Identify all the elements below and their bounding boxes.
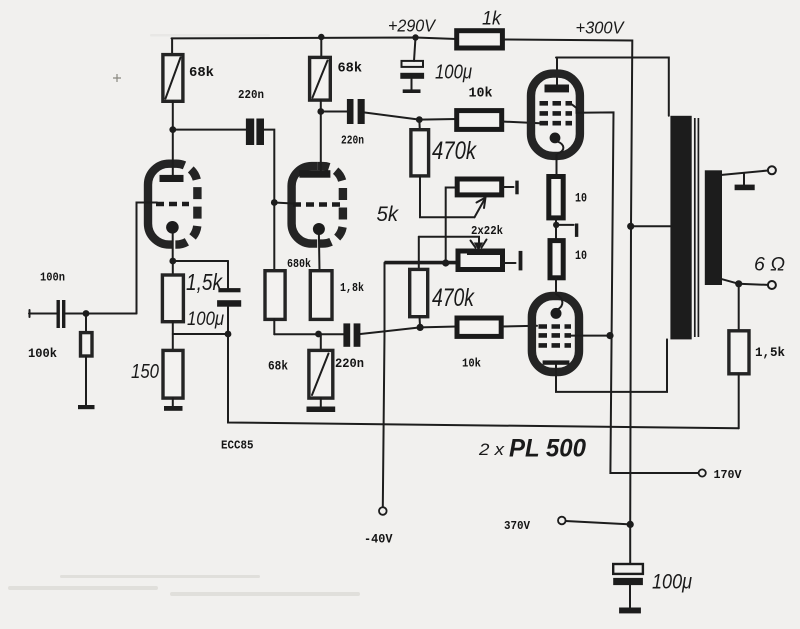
svg-text:170V: 170V xyxy=(714,468,743,482)
svg-text:2x22k: 2x22k xyxy=(471,224,503,238)
svg-text:150: 150 xyxy=(131,360,159,383)
svg-text:68k: 68k xyxy=(189,66,214,81)
svg-text:PL 500: PL 500 xyxy=(509,435,586,463)
svg-text:5k: 5k xyxy=(377,203,400,226)
svg-text:68k: 68k xyxy=(268,360,288,374)
svg-text:+290V: +290V xyxy=(388,16,437,36)
svg-text:68k: 68k xyxy=(338,62,363,77)
svg-text:6 Ω: 6 Ω xyxy=(754,255,785,276)
svg-text:100μ: 100μ xyxy=(187,309,225,330)
svg-text:10: 10 xyxy=(575,192,587,206)
svg-text:1k: 1k xyxy=(482,9,502,30)
svg-text:100n: 100n xyxy=(40,271,65,285)
svg-text:470k: 470k xyxy=(432,137,477,165)
svg-text:100μ: 100μ xyxy=(435,62,472,84)
svg-text:220n: 220n xyxy=(341,134,364,148)
svg-text:680k: 680k xyxy=(287,258,311,271)
svg-text:10k: 10k xyxy=(469,87,493,102)
svg-text:220n: 220n xyxy=(335,357,364,371)
svg-text:1,8k: 1,8k xyxy=(340,282,364,295)
svg-text:220n: 220n xyxy=(238,88,264,102)
svg-text:470k: 470k xyxy=(432,284,475,312)
svg-text:1,5k: 1,5k xyxy=(755,346,785,360)
svg-text:1,5k: 1,5k xyxy=(186,269,223,295)
svg-text:100k: 100k xyxy=(28,347,57,361)
svg-text:2 x: 2 x xyxy=(478,440,505,459)
svg-text:100μ: 100μ xyxy=(652,570,692,594)
svg-text:370V: 370V xyxy=(504,520,530,533)
svg-text:10k: 10k xyxy=(462,357,481,371)
svg-text:-40V: -40V xyxy=(364,533,393,547)
svg-text:10: 10 xyxy=(575,249,587,263)
svg-text:ECC85: ECC85 xyxy=(221,439,254,453)
svg-text:+300V: +300V xyxy=(576,18,626,38)
